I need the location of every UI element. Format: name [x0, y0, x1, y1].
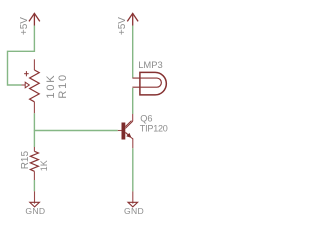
wire pot bottom to junction — [33, 113, 35, 131]
power symbol +5V right arrow — [127, 13, 138, 25]
wire wiper pin segment — [22, 84, 26, 86]
svg-text:1K: 1K — [39, 160, 49, 171]
transistor Q6 collector diagonals — [125, 121, 132, 129]
potentiometer R10 plus marker — [24, 71, 29, 76]
resistor R15 top pin — [33, 147, 35, 151]
transistor Q6 base bar — [122, 123, 126, 140]
transistor Q6 emitter with arrow — [125, 132, 130, 137]
svg-text:GND: GND — [25, 206, 45, 216]
potentiometer R10 floating top pin — [33, 59, 35, 70]
power symbol +5V left arrow — [29, 13, 40, 25]
svg-text:TIP120: TIP120 — [140, 123, 168, 133]
wire lamp to collector — [132, 88, 134, 114]
svg-text:LMP3: LMP3 — [138, 59, 163, 70]
svg-text:+5V: +5V — [117, 17, 128, 35]
ground symbol left — [25, 191, 45, 216]
wire +5V right rail to lamp — [132, 26, 134, 78]
svg-text:+5V: +5V — [19, 17, 30, 35]
svg-text:Q6: Q6 — [140, 113, 152, 123]
wire junction to transistor base — [34, 130, 117, 132]
svg-text:R15: R15 — [20, 151, 31, 170]
resistor R15 bottom pin — [33, 171, 35, 180]
svg-text:GND: GND — [124, 206, 144, 216]
svg-text:R10: R10 — [57, 73, 69, 99]
transistor Q6 emitter pin — [132, 139, 134, 149]
wire +5V left rail to wiper — [8, 26, 35, 86]
svg-text:10K: 10K — [45, 74, 57, 99]
transistor Q6 collector pin — [132, 114, 134, 121]
potentiometer R10 wiper arrow — [25, 82, 29, 88]
resistor R15 zigzag body — [30, 151, 38, 171]
ground symbol right — [124, 191, 144, 215]
potentiometer R10 zigzag body — [30, 70, 40, 102]
transistor Q6 base pin — [118, 130, 122, 132]
wire junction down to R15 — [33, 131, 35, 148]
lamp LMP3 filament and pins — [132, 78, 161, 87]
wire R15 to ground left — [33, 180, 35, 191]
lamp LMP3 body outline — [140, 72, 166, 95]
wire emitter to ground right — [132, 148, 134, 191]
potentiometer R10 bottom pin — [33, 102, 35, 114]
